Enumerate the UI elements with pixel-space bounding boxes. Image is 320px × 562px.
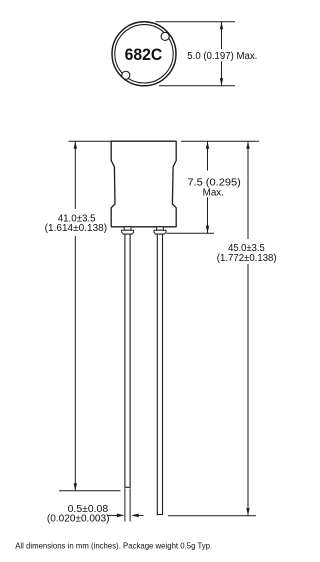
dimension line 41.0 upper segment bbox=[74, 141, 76, 209]
dimension line 7.5 lower segment bbox=[207, 197, 209, 233]
vent notch upper-right bbox=[161, 32, 169, 40]
arrowhead up 7.5 bbox=[206, 141, 209, 149]
dimension line 41.0 lower segment bbox=[74, 236, 76, 491]
svg-text:5.0 (0.197) Max.: 5.0 (0.197) Max. bbox=[187, 51, 257, 62]
svg-text:(0.020±0.003): (0.020±0.003) bbox=[47, 513, 110, 524]
vent notch lower-left bbox=[122, 71, 130, 79]
extension line bottom of circle bbox=[159, 85, 235, 87]
svg-text:682C: 682C bbox=[125, 46, 163, 64]
top extension line right of body bbox=[181, 140, 259, 142]
arrowhead down at circle bottom bbox=[220, 78, 223, 86]
lead diameter extension line right bbox=[129, 488, 131, 521]
dimension line 7.5 upper segment bbox=[207, 141, 209, 170]
capacitor top view: outer can circle bbox=[112, 22, 176, 86]
svg-text:(1.772±0.138): (1.772±0.138) bbox=[217, 253, 277, 264]
arrowhead up at circle top bbox=[220, 22, 223, 30]
right lead neck bbox=[157, 227, 164, 231]
diameter dimension line 5.0 lower segment bbox=[221, 61, 223, 85]
right lead collar bbox=[154, 230, 166, 234]
bottom extension line left lead bbox=[59, 490, 121, 492]
capacitor top view: inner sleeve circle bbox=[115, 25, 173, 83]
svg-text:Max.: Max. bbox=[203, 187, 224, 198]
lead diameter extension line left bbox=[124, 488, 126, 521]
arrowhead up 41.0 bbox=[74, 141, 77, 149]
arrowhead down 7.5 bbox=[206, 226, 209, 234]
arrowhead down 45.0 bbox=[246, 508, 249, 516]
arrowhead down 41.0 bbox=[74, 483, 77, 491]
bottom extension line right lead bbox=[168, 515, 256, 517]
left lead collar bbox=[122, 230, 134, 234]
dimension line 45.0 lower segment bbox=[247, 264, 249, 516]
left lead (short) bbox=[125, 234, 130, 487]
outer circle redrawn on top bbox=[112, 22, 176, 86]
svg-text:(1.614±0.138): (1.614±0.138) bbox=[45, 223, 107, 234]
lead diameter arrow left bbox=[108, 514, 122, 516]
capacitor body side view bbox=[111, 141, 176, 227]
extension line top of circle bbox=[156, 21, 236, 23]
diameter dimension line 5.0 upper segment bbox=[221, 22, 223, 49]
arrowhead up 45.0 bbox=[246, 141, 249, 149]
seating plane extension line bbox=[167, 232, 215, 234]
top extension line left of body bbox=[69, 140, 112, 142]
dimension line 45.0 upper segment bbox=[247, 141, 249, 239]
left lead neck bbox=[124, 227, 131, 231]
lead diameter arrow right bbox=[134, 514, 144, 516]
svg-text:All dimensions in mm (inches).: All dimensions in mm (inches). Package w… bbox=[15, 542, 212, 551]
right lead (long) bbox=[157, 234, 162, 514]
